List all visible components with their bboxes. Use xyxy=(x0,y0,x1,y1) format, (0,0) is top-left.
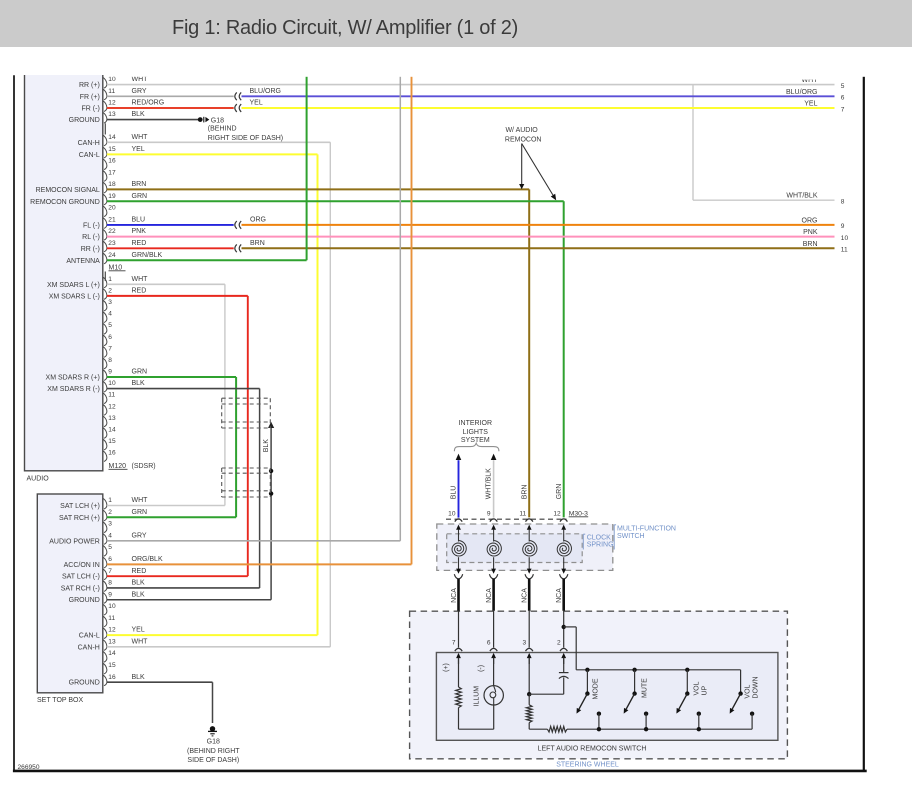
svg-text:FR (-): FR (-) xyxy=(82,106,100,113)
svg-text:CAN-L: CAN-L xyxy=(79,152,100,159)
svg-text:RL (-): RL (-) xyxy=(82,234,100,241)
svg-text:(BEHIND: (BEHIND xyxy=(208,126,237,133)
svg-text:ACC/ON IN: ACC/ON IN xyxy=(64,562,100,569)
svg-text:9: 9 xyxy=(108,591,112,598)
svg-text:RIGHT SIDE OF DASH): RIGHT SIDE OF DASH) xyxy=(208,135,283,142)
svg-text:11: 11 xyxy=(841,247,848,254)
svg-text:10: 10 xyxy=(841,235,849,242)
svg-text:GROUND: GROUND xyxy=(69,117,100,124)
svg-text:XM SDARS L (+): XM SDARS L (+) xyxy=(47,282,100,289)
svg-text:LEFT AUDIO REMOCON SWITCH: LEFT AUDIO REMOCON SWITCH xyxy=(538,745,647,752)
svg-text:9: 9 xyxy=(487,510,491,517)
svg-text:NCA: NCA xyxy=(486,588,493,603)
svg-text:GRN: GRN xyxy=(132,509,148,516)
svg-text:15: 15 xyxy=(108,662,116,669)
svg-text:SPRING: SPRING xyxy=(587,542,614,549)
svg-text:FR (+): FR (+) xyxy=(80,94,100,101)
svg-text:12: 12 xyxy=(108,403,116,410)
svg-text:NCA: NCA xyxy=(556,588,563,603)
svg-text:RR (-): RR (-) xyxy=(81,246,100,253)
svg-text:ILLUM: ILLUM xyxy=(473,686,480,707)
svg-text:GROUND: GROUND xyxy=(69,680,100,687)
svg-text:19: 19 xyxy=(108,193,116,200)
svg-text:CAN-H: CAN-H xyxy=(78,140,100,147)
svg-text:WHT/BLK: WHT/BLK xyxy=(786,193,817,200)
svg-text:WHT: WHT xyxy=(132,76,149,83)
svg-text:BRN: BRN xyxy=(132,181,147,188)
svg-text:2: 2 xyxy=(108,509,112,516)
svg-text:LIGHTS: LIGHTS xyxy=(463,429,489,436)
svg-text:NCA: NCA xyxy=(522,588,529,603)
svg-text:REMOCON GROUND: REMOCON GROUND xyxy=(30,199,100,206)
svg-text:YEL: YEL xyxy=(804,101,817,108)
svg-text:RED: RED xyxy=(132,240,147,247)
svg-text:BLK: BLK xyxy=(132,674,146,681)
svg-text:WHT: WHT xyxy=(132,134,149,141)
svg-text:AUDIO: AUDIO xyxy=(27,476,50,483)
svg-text:7: 7 xyxy=(108,568,112,575)
svg-text:RED/ORG: RED/ORG xyxy=(132,100,165,107)
svg-text:6: 6 xyxy=(108,556,112,563)
svg-text:(+): (+) xyxy=(443,663,450,672)
svg-text:CAN-H: CAN-H xyxy=(78,644,100,651)
svg-text:MULTI-FUNCTION: MULTI-FUNCTION xyxy=(617,525,676,532)
svg-text:REMOCON SIGNAL: REMOCON SIGNAL xyxy=(36,187,100,194)
svg-text:W/ AUDIO: W/ AUDIO xyxy=(505,127,538,134)
svg-text:(-): (-) xyxy=(478,665,485,672)
svg-text:2: 2 xyxy=(108,287,112,294)
svg-text:16: 16 xyxy=(108,158,116,165)
svg-text:4: 4 xyxy=(108,532,112,539)
svg-text:STEERING WHEEL: STEERING WHEEL xyxy=(556,762,619,769)
svg-text:1: 1 xyxy=(108,497,112,504)
svg-text:SAT LCH (+): SAT LCH (+) xyxy=(60,503,100,510)
svg-text:XM SDARS R (-): XM SDARS R (-) xyxy=(47,386,100,393)
svg-text:12: 12 xyxy=(108,100,116,107)
svg-text:M120: M120 xyxy=(109,463,127,470)
svg-text:SAT LCH (-): SAT LCH (-) xyxy=(62,574,100,581)
svg-text:21: 21 xyxy=(108,217,116,224)
svg-text:2: 2 xyxy=(557,640,561,647)
svg-text:13: 13 xyxy=(108,415,116,422)
svg-text:RR (+): RR (+) xyxy=(79,82,100,89)
svg-text:UP: UP xyxy=(702,685,709,695)
svg-text:INTERIOR: INTERIOR xyxy=(459,420,492,427)
svg-text:WHT: WHT xyxy=(132,276,149,283)
svg-text:WHT: WHT xyxy=(132,497,149,504)
svg-text:1: 1 xyxy=(108,276,112,283)
svg-text:BLK: BLK xyxy=(132,380,146,387)
svg-text:YEL: YEL xyxy=(250,100,263,107)
svg-text:GRN: GRN xyxy=(132,369,148,376)
svg-text:3: 3 xyxy=(523,640,527,647)
svg-text:M10: M10 xyxy=(109,264,123,271)
svg-text:BLK: BLK xyxy=(132,580,146,587)
svg-text:BRN: BRN xyxy=(521,485,528,500)
svg-text:3: 3 xyxy=(108,521,112,528)
svg-text:GRN: GRN xyxy=(556,484,563,500)
svg-text:9: 9 xyxy=(841,223,845,230)
svg-text:24: 24 xyxy=(108,252,116,259)
svg-text:GROUND: GROUND xyxy=(69,597,100,604)
svg-text:13: 13 xyxy=(108,111,116,118)
svg-text:YEL: YEL xyxy=(132,627,145,634)
svg-text:5: 5 xyxy=(108,544,112,551)
svg-text:VOL: VOL xyxy=(694,681,701,695)
svg-text:FL (-): FL (-) xyxy=(83,222,100,229)
svg-text:23: 23 xyxy=(108,240,116,247)
svg-text:10: 10 xyxy=(108,76,116,83)
svg-text:BLK: BLK xyxy=(132,111,146,118)
svg-text:12: 12 xyxy=(108,627,116,634)
svg-text:16: 16 xyxy=(108,674,116,681)
svg-text:GRY: GRY xyxy=(132,88,147,95)
svg-text:GRY: GRY xyxy=(132,532,147,539)
svg-text:SIDE OF DASH): SIDE OF DASH) xyxy=(187,757,239,764)
svg-text:SAT RCH (-): SAT RCH (-) xyxy=(61,585,100,592)
svg-text:REMOCON: REMOCON xyxy=(505,137,542,144)
svg-text:MODE: MODE xyxy=(593,678,600,699)
svg-text:XM SDARS R (+): XM SDARS R (+) xyxy=(46,374,100,381)
svg-text:BLK: BLK xyxy=(263,439,270,453)
svg-text:SYSTEM: SYSTEM xyxy=(461,437,490,444)
svg-text:RED: RED xyxy=(132,568,147,575)
svg-text:6: 6 xyxy=(108,334,112,341)
svg-text:5: 5 xyxy=(108,322,112,329)
svg-text:14: 14 xyxy=(108,650,116,657)
svg-text:MUTE: MUTE xyxy=(642,678,649,698)
svg-text:XM SDARS L (-): XM SDARS L (-) xyxy=(49,293,100,300)
svg-text:CLOCK: CLOCK xyxy=(587,535,611,542)
svg-text:WHT/BLK: WHT/BLK xyxy=(486,468,493,499)
svg-text:SET TOP BOX: SET TOP BOX xyxy=(37,697,84,704)
svg-text:13: 13 xyxy=(108,638,116,645)
svg-text:15: 15 xyxy=(108,438,116,445)
svg-text:ORG: ORG xyxy=(802,217,818,224)
svg-text:SAT RCH (+): SAT RCH (+) xyxy=(59,515,100,522)
svg-text:22: 22 xyxy=(108,228,116,235)
svg-text:GRN: GRN xyxy=(132,193,148,200)
svg-text:7: 7 xyxy=(841,106,845,113)
svg-text:11: 11 xyxy=(519,510,526,517)
svg-text:BRN: BRN xyxy=(250,240,265,247)
svg-text:17: 17 xyxy=(108,169,116,176)
svg-text:11: 11 xyxy=(108,392,115,399)
svg-text:YEL: YEL xyxy=(132,146,145,153)
svg-text:BLK: BLK xyxy=(132,591,146,598)
svg-text:SWITCH: SWITCH xyxy=(617,533,645,540)
svg-text:WHT: WHT xyxy=(132,638,149,645)
svg-text:G18: G18 xyxy=(207,738,220,745)
svg-text:10: 10 xyxy=(448,510,456,517)
svg-text:BLU: BLU xyxy=(451,486,458,500)
svg-text:VOL: VOL xyxy=(744,684,751,698)
svg-text:GRN/BLK: GRN/BLK xyxy=(132,252,163,259)
svg-text:CAN-L: CAN-L xyxy=(79,633,100,640)
svg-text:8: 8 xyxy=(108,357,112,364)
svg-text:BLU/ORG: BLU/ORG xyxy=(250,88,282,95)
svg-text:12: 12 xyxy=(553,510,561,517)
svg-text:PNK: PNK xyxy=(803,229,818,236)
svg-text:ORG/BLK: ORG/BLK xyxy=(132,556,163,563)
svg-text:AUDIO POWER: AUDIO POWER xyxy=(49,538,100,545)
svg-text:ORG: ORG xyxy=(250,217,266,224)
svg-text:DOWN: DOWN xyxy=(752,676,759,698)
svg-text:7: 7 xyxy=(108,345,112,352)
svg-text:G18: G18 xyxy=(211,117,224,124)
svg-text:7: 7 xyxy=(452,640,456,647)
svg-text:14: 14 xyxy=(108,426,116,433)
svg-text:4: 4 xyxy=(108,311,112,318)
svg-text:16: 16 xyxy=(108,450,116,457)
svg-text:15: 15 xyxy=(108,146,116,153)
svg-text:BLU: BLU xyxy=(132,217,146,224)
svg-text:RED: RED xyxy=(132,287,147,294)
svg-text:ANTENNA: ANTENNA xyxy=(66,258,100,265)
svg-text:3: 3 xyxy=(108,299,112,306)
svg-text:10: 10 xyxy=(108,380,116,387)
svg-text:6: 6 xyxy=(841,95,845,102)
svg-text:5: 5 xyxy=(841,83,845,90)
svg-text:8: 8 xyxy=(108,580,112,587)
svg-text:9: 9 xyxy=(108,369,112,376)
svg-text:BRN: BRN xyxy=(803,241,818,248)
svg-text:14: 14 xyxy=(108,134,116,141)
svg-text:(BEHIND RIGHT: (BEHIND RIGHT xyxy=(187,748,240,755)
svg-text:PNK: PNK xyxy=(132,228,147,235)
svg-text:20: 20 xyxy=(108,205,116,212)
svg-text:11: 11 xyxy=(108,88,115,95)
svg-text:11: 11 xyxy=(108,615,115,622)
svg-text:6: 6 xyxy=(487,640,491,647)
svg-text:8: 8 xyxy=(841,199,845,206)
svg-text:10: 10 xyxy=(108,603,116,610)
svg-text:18: 18 xyxy=(108,181,116,188)
svg-text:BLU/ORG: BLU/ORG xyxy=(786,89,818,96)
svg-text:(SDSR): (SDSR) xyxy=(132,463,156,470)
svg-text:NCA: NCA xyxy=(451,588,458,603)
